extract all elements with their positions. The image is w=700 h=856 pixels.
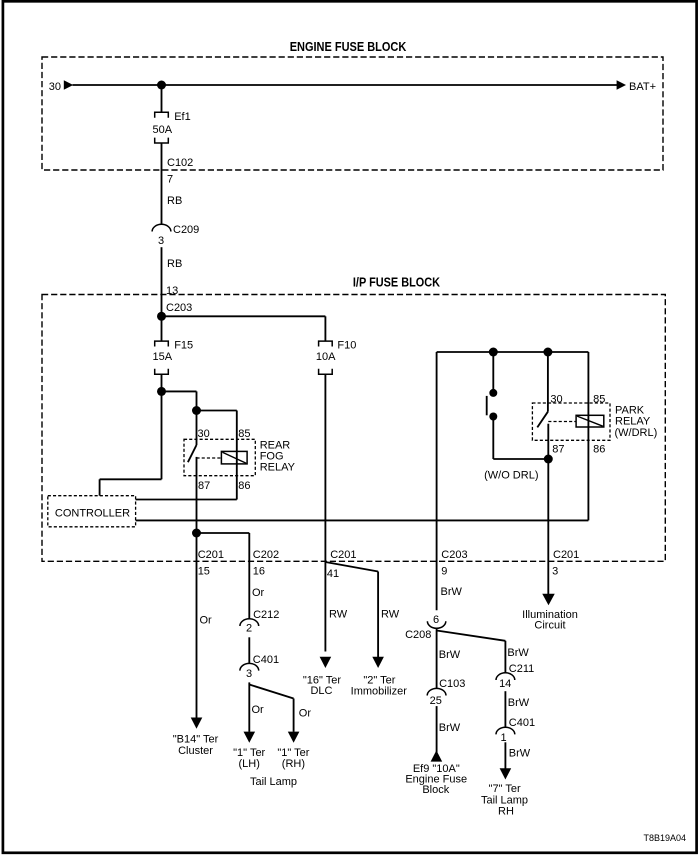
svg-text:Block: Block <box>422 784 449 796</box>
svg-text:C102: C102 <box>167 157 193 169</box>
svg-text:15A: 15A <box>153 351 173 363</box>
svg-text:C212: C212 <box>253 609 279 621</box>
svg-text:87: 87 <box>198 480 210 492</box>
svg-text:C202: C202 <box>253 549 279 561</box>
svg-text:"B14" Ter: "B14" Ter <box>173 734 219 746</box>
svg-text:I/P FUSE BLOCK: I/P FUSE BLOCK <box>353 274 441 289</box>
svg-text:C208: C208 <box>405 629 431 641</box>
svg-text:F10: F10 <box>337 340 356 352</box>
svg-text:Ef1: Ef1 <box>174 111 191 123</box>
svg-text:RELAY: RELAY <box>260 461 296 473</box>
svg-text:10A: 10A <box>316 351 336 363</box>
svg-text:30: 30 <box>49 81 61 93</box>
svg-text:30: 30 <box>198 428 210 440</box>
svg-text:9: 9 <box>441 566 447 578</box>
svg-text:41: 41 <box>327 568 339 580</box>
svg-text:BrW: BrW <box>508 697 530 709</box>
svg-text:86: 86 <box>593 443 605 455</box>
svg-text:BrW: BrW <box>509 748 531 760</box>
svg-text:C401: C401 <box>253 654 279 666</box>
svg-text:BrW: BrW <box>507 647 529 659</box>
svg-text:3: 3 <box>552 566 558 578</box>
svg-text:1: 1 <box>500 732 506 744</box>
svg-text:RW: RW <box>381 609 400 621</box>
svg-text:15: 15 <box>198 566 210 578</box>
svg-text:RW: RW <box>329 609 348 621</box>
svg-text:Circuit: Circuit <box>534 620 565 632</box>
svg-text:BrW: BrW <box>441 586 463 598</box>
svg-text:C201: C201 <box>553 549 579 561</box>
svg-text:Cluster: Cluster <box>178 745 213 757</box>
svg-text:Or: Or <box>299 708 312 720</box>
svg-text:(LH): (LH) <box>239 758 260 770</box>
svg-text:C203: C203 <box>166 302 192 314</box>
svg-text:7: 7 <box>167 174 173 186</box>
svg-text:C209: C209 <box>173 224 199 236</box>
svg-text:C103: C103 <box>439 678 465 690</box>
svg-text:BAT+: BAT+ <box>629 81 656 93</box>
svg-text:RH: RH <box>498 805 514 817</box>
svg-text:C201: C201 <box>198 549 224 561</box>
svg-text:85: 85 <box>238 428 250 440</box>
svg-text:2: 2 <box>246 623 252 635</box>
svg-text:30: 30 <box>550 394 562 406</box>
svg-text:87: 87 <box>552 443 564 455</box>
svg-text:"7" Ter: "7" Ter <box>489 783 521 795</box>
svg-text:50A: 50A <box>153 124 173 136</box>
svg-text:Or: Or <box>200 615 213 627</box>
svg-text:Immobilizer: Immobilizer <box>351 686 408 698</box>
svg-text:Or: Or <box>252 587 265 599</box>
svg-text:C401: C401 <box>509 717 535 729</box>
svg-text:RB: RB <box>167 258 182 270</box>
svg-text:C201: C201 <box>330 549 356 561</box>
svg-text:RB: RB <box>167 195 182 207</box>
svg-text:RELAY: RELAY <box>615 415 651 427</box>
svg-text:T8B19A04: T8B19A04 <box>643 833 686 843</box>
svg-text:(W/DRL): (W/DRL) <box>615 427 658 439</box>
svg-text:16: 16 <box>253 566 265 578</box>
svg-text:BrW: BrW <box>439 722 461 734</box>
svg-text:85: 85 <box>593 394 605 406</box>
svg-text:DLC: DLC <box>310 685 332 697</box>
svg-text:14: 14 <box>499 678 511 690</box>
svg-text:CONTROLLER: CONTROLLER <box>55 508 130 520</box>
svg-text:25: 25 <box>430 695 442 707</box>
svg-text:C211: C211 <box>509 663 534 675</box>
svg-text:F15: F15 <box>174 340 193 352</box>
svg-text:BrW: BrW <box>439 649 461 661</box>
svg-text:(W/O DRL): (W/O DRL) <box>484 470 538 482</box>
svg-text:(RH): (RH) <box>282 758 305 770</box>
svg-text:ENGINE FUSE BLOCK: ENGINE FUSE BLOCK <box>290 39 407 54</box>
svg-text:Tail Lamp: Tail Lamp <box>250 776 297 788</box>
svg-text:6: 6 <box>433 614 439 626</box>
svg-text:86: 86 <box>238 480 250 492</box>
svg-text:C203: C203 <box>441 549 467 561</box>
svg-text:3: 3 <box>158 235 164 247</box>
svg-text:Or: Or <box>252 704 265 716</box>
svg-text:3: 3 <box>246 668 252 680</box>
